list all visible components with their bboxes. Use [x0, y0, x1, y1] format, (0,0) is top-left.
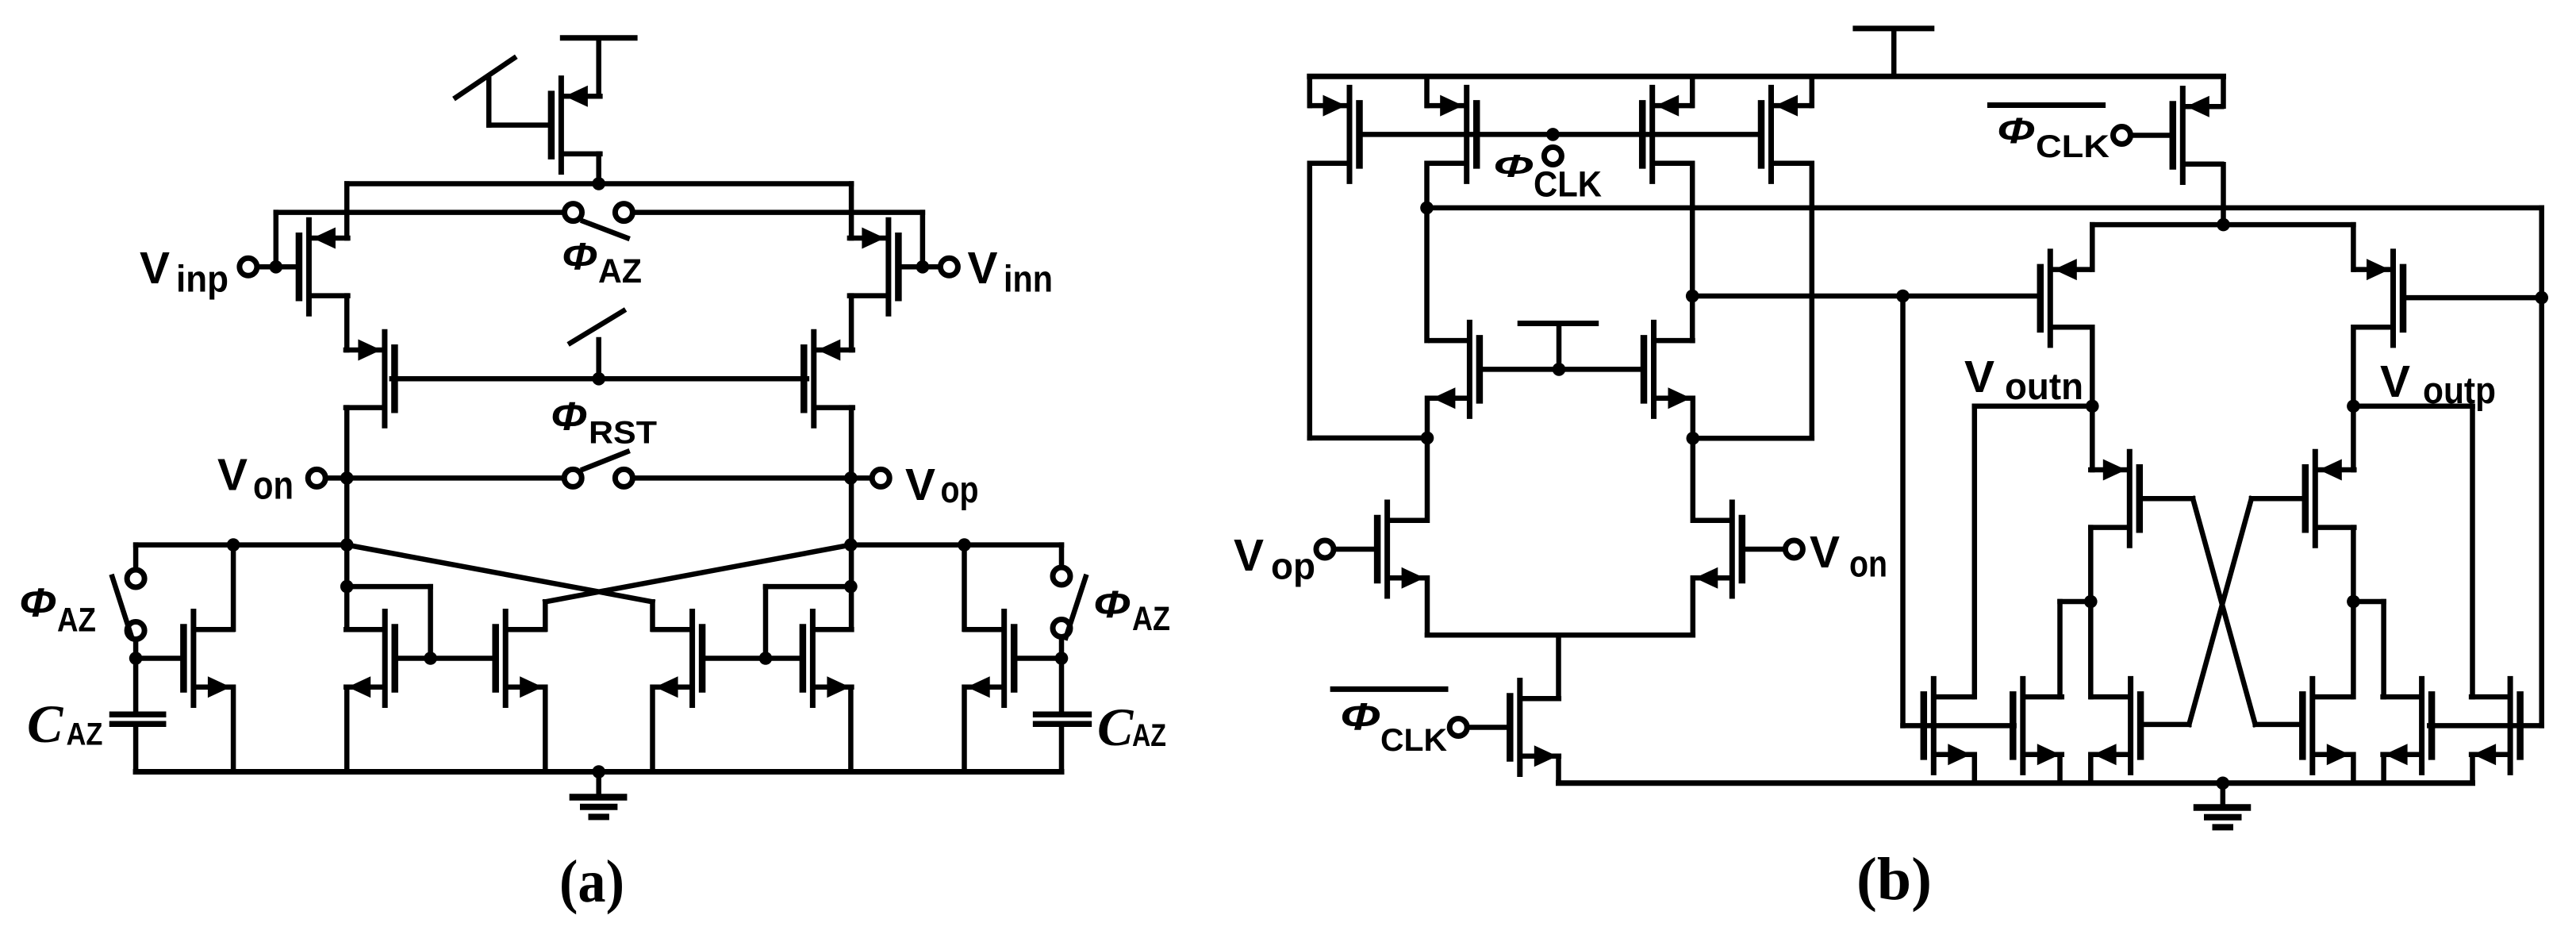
- svg-text:(b): (b): [1856, 846, 1932, 913]
- svg-text:V: V: [905, 459, 935, 510]
- svg-text:CLK: CLK: [1380, 723, 1447, 758]
- svg-text:AZ: AZ: [598, 252, 642, 290]
- svg-text:on: on: [253, 463, 294, 508]
- svg-text:V: V: [140, 243, 170, 294]
- svg-text:CLK: CLK: [2036, 129, 2110, 164]
- svg-text:V: V: [1234, 530, 1264, 581]
- svg-text:op: op: [1271, 545, 1315, 587]
- svg-text:Φ: Φ: [1340, 696, 1380, 738]
- svg-text:V: V: [2380, 356, 2410, 407]
- svg-text:V: V: [1810, 527, 1840, 578]
- svg-text:on: on: [1849, 542, 1887, 584]
- svg-text:Φ: Φ: [19, 580, 56, 625]
- svg-text:RST: RST: [589, 416, 657, 451]
- svg-text:op: op: [941, 468, 979, 510]
- svg-text:V: V: [1964, 352, 1994, 402]
- svg-text:inp: inp: [176, 257, 228, 299]
- svg-text:Φ: Φ: [1493, 149, 1534, 184]
- svg-text:Φ: Φ: [551, 394, 587, 439]
- svg-text:C: C: [27, 694, 63, 754]
- svg-text:AZ: AZ: [1132, 600, 1170, 638]
- svg-text:C: C: [1097, 697, 1134, 757]
- svg-text:Φ: Φ: [1997, 110, 2035, 151]
- svg-text:inn: inn: [1004, 257, 1053, 299]
- svg-text:outp: outp: [2423, 369, 2496, 411]
- svg-text:(a): (a): [559, 848, 624, 915]
- svg-text:outn: outn: [2005, 365, 2083, 407]
- svg-text:Φ: Φ: [562, 236, 597, 279]
- svg-text:V: V: [217, 449, 248, 500]
- svg-text:V: V: [968, 243, 998, 294]
- svg-text:AZ: AZ: [67, 717, 103, 752]
- svg-text:AZ: AZ: [1132, 718, 1166, 753]
- svg-text:Φ: Φ: [1093, 584, 1131, 626]
- svg-text:CLK: CLK: [1534, 163, 1602, 204]
- svg-text:AZ: AZ: [57, 601, 96, 639]
